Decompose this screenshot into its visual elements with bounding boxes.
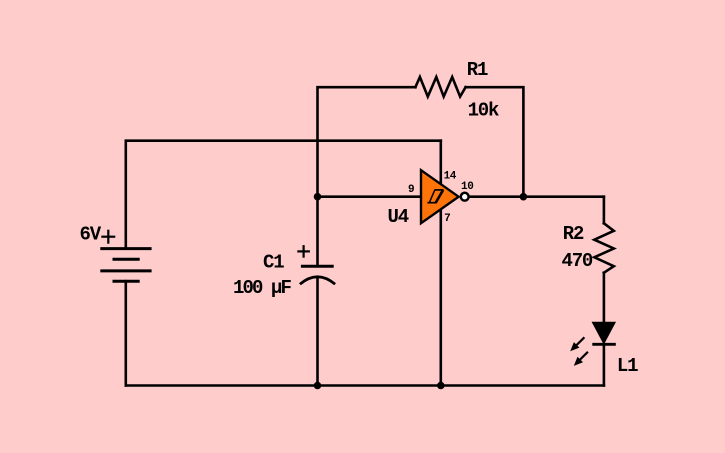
junction node A (input) bbox=[314, 193, 322, 201]
battery plus sign bbox=[101, 230, 115, 244]
svg-text:6V: 6V bbox=[80, 223, 102, 245]
resistor R2 zigzag bbox=[594, 223, 614, 272]
wire input node A to U4 pin 9 bbox=[318, 195, 422, 198]
resistor R1 zigzag bbox=[415, 77, 465, 97]
svg-text:L1: L1 bbox=[617, 355, 638, 377]
LED arrow 1 bbox=[570, 337, 584, 351]
svg-text:9: 9 bbox=[408, 184, 414, 196]
wire left rail top (battery + to power rail) bbox=[126, 141, 441, 249]
wire bottom rail bbox=[126, 384, 604, 387]
svg-text:10: 10 bbox=[461, 181, 473, 193]
wire R1 right to output node bbox=[466, 87, 524, 197]
svg-text:10k: 10k bbox=[468, 100, 499, 122]
svg-text:470: 470 bbox=[562, 250, 593, 272]
wire feedback vertical (node A to top) bbox=[318, 87, 416, 266]
svg-text:R1: R1 bbox=[467, 59, 488, 81]
capacitor C1 plus sign bbox=[297, 245, 310, 258]
wire R2 branch top bbox=[603, 197, 606, 224]
junction output/R1 node bbox=[520, 193, 528, 201]
junction pin7 bottom rail bbox=[437, 382, 445, 390]
wire LED to bottom rail bbox=[603, 344, 606, 385]
LED L1 cathode bar bbox=[592, 343, 616, 346]
svg-text:R2: R2 bbox=[563, 223, 584, 245]
wire C1 bottom to rail bbox=[316, 278, 319, 386]
wire battery - to bottom rail bbox=[125, 281, 128, 385]
capacitor C1 top plate bbox=[301, 265, 334, 268]
wire U4 output to R2 branch bbox=[468, 195, 604, 198]
LED arrow 2 bbox=[574, 352, 588, 366]
capacitor C1 bottom curved plate bbox=[300, 277, 335, 284]
op-amp U4 schmitt inverter triangle bbox=[421, 170, 459, 223]
svg-text:100 µF: 100 µF bbox=[233, 277, 292, 299]
LED L1 triangle bbox=[593, 323, 615, 344]
svg-text:14: 14 bbox=[444, 170, 457, 182]
svg-text:C1: C1 bbox=[263, 252, 284, 274]
battery B1 plates bbox=[100, 249, 151, 282]
svg-text:U4: U4 bbox=[388, 206, 409, 228]
wire pin14/pin7 vertical through U4 bbox=[439, 141, 442, 386]
junction C1 bottom rail bbox=[314, 382, 322, 390]
U4 output inversion bubble bbox=[461, 193, 469, 201]
wire R2 bottom to LED bbox=[603, 273, 606, 323]
hysteresis symbol inside U4 bbox=[427, 190, 443, 203]
svg-text:7: 7 bbox=[444, 213, 450, 225]
